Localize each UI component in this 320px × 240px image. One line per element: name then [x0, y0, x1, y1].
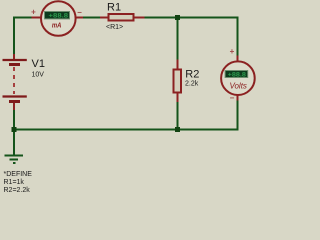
voltmeter display — [225, 71, 248, 78]
wire voltmeter bottom to node B — [178, 101, 238, 130]
resistor R1 — [100, 14, 145, 21]
wire node B to node C — [14, 129, 178, 131]
wire R1 to node A — [145, 17, 178, 19]
ammeter + pin — [32, 17, 41, 19]
svg-text:R2: R2 — [185, 69, 199, 81]
node B junction — [175, 127, 180, 132]
svg-text:+88.8: +88.8 — [228, 71, 247, 78]
battery plate short bottom — [9, 100, 20, 103]
battery plate long bottom — [3, 95, 27, 97]
voltmeter body — [221, 61, 255, 95]
wire battery- to node C — [13, 110, 15, 130]
voltmeter VM1 — [221, 47, 255, 102]
svg-text:−: − — [77, 8, 82, 17]
battery cell dashes — [13, 67, 15, 94]
ammeter display — [45, 12, 70, 19]
svg-text:−: − — [230, 94, 235, 103]
svg-text:R1=1k: R1=1k — [4, 179, 25, 186]
svg-text:+88.8: +88.8 — [49, 12, 69, 19]
battery - pin — [13, 103, 15, 110]
voltmeter + pin — [237, 56, 239, 62]
R2 pin 1 — [177, 60, 179, 69]
ground bar 2 — [10, 159, 19, 161]
svg-text:R2=2.2k: R2=2.2k — [4, 187, 31, 194]
wire node A to voltmeter top — [178, 18, 238, 56]
svg-text:+: + — [230, 47, 235, 56]
ammeter - pin — [77, 17, 84, 19]
ground — [5, 156, 24, 164]
node A junction — [175, 15, 180, 20]
wire battery+ to ammeter — [14, 18, 32, 56]
svg-text:2.2k: 2.2k — [185, 80, 199, 87]
resistor R2 — [174, 60, 182, 103]
svg-text:Volts: Volts — [229, 82, 247, 91]
wire R2 to node B — [177, 102, 179, 130]
battery plate short top — [9, 63, 20, 66]
svg-text:+: + — [31, 7, 36, 16]
ammeter body — [41, 1, 76, 36]
svg-text:*DEFINE: *DEFINE — [4, 171, 33, 178]
node C junction — [12, 127, 17, 132]
ground bar 3 — [13, 162, 16, 164]
battery + pin — [13, 54, 15, 59]
svg-text:10V: 10V — [32, 72, 45, 79]
ground bar 1 — [5, 155, 24, 157]
R2 body — [174, 70, 182, 93]
svg-text:mA: mA — [52, 23, 62, 30]
R1 pin 2 — [135, 17, 145, 19]
ammeter AM1 — [31, 1, 83, 36]
R2 pin 2 — [177, 94, 179, 103]
svg-text:V1: V1 — [32, 58, 45, 70]
R1 body — [109, 14, 134, 21]
battery V1 — [3, 54, 27, 110]
svg-text:<R1>: <R1> — [106, 24, 123, 31]
R1 pin 1 — [100, 17, 108, 19]
wire ammeter to R1 — [83, 17, 100, 19]
svg-text:R1: R1 — [107, 2, 121, 14]
battery plate long top — [3, 59, 27, 61]
wire node C to ground — [13, 130, 15, 156]
wire node A down to R2 — [177, 18, 179, 60]
voltmeter - pin — [237, 96, 239, 101]
